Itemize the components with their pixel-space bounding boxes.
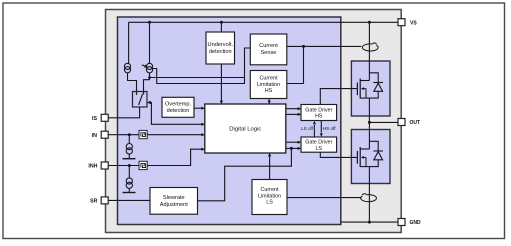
MOSFET HS	[357, 79, 369, 99]
wire current limitation LS to digital logic	[269, 154, 271, 180]
svg-text:HS: HS	[315, 114, 323, 120]
svg-text:detection: detection	[209, 49, 232, 55]
svg-text:Gate Driver: Gate Driver	[305, 140, 332, 146]
node rail-rightsource	[148, 21, 151, 24]
schmitt trigger INH	[139, 161, 147, 169]
wire IN pin to schmitt	[108, 134, 139, 136]
svg-text:Current: Current	[259, 43, 278, 49]
svg-text:HS: HS	[265, 88, 273, 94]
wire right current source to switch	[144, 73, 150, 94]
wire INH pin to schmitt	[108, 165, 139, 167]
block undervoltage detection	[206, 32, 235, 64]
arrow CL-LS into DL bottom	[268, 153, 271, 157]
wire VS to HS drain	[368, 22, 370, 80]
wire HS source to LS drain through OUT	[368, 98, 370, 149]
block overtemp detection	[162, 97, 194, 117]
wire sense tap horizontal	[150, 77, 245, 79]
arrow DL into gate driver LS a	[298, 141, 302, 144]
block current limitation HS	[250, 71, 286, 99]
svg-text:Digital Logic: Digital Logic	[229, 126, 261, 132]
pin SR	[101, 197, 108, 204]
wire current sense to VS bond node	[287, 45, 362, 47]
current source IS right (adjustable)	[146, 63, 152, 73]
svg-text:HS off: HS off	[323, 126, 336, 131]
svg-text:SR: SR	[90, 199, 98, 205]
IC body (grey)	[106, 10, 402, 233]
ground bar INH	[123, 192, 136, 194]
svg-text:INH: INH	[88, 164, 97, 170]
node INH pulldown	[128, 164, 131, 167]
bond wire inductance GND	[361, 194, 377, 202]
current source IS left (two interlocked circles)	[124, 63, 130, 73]
arrow overtemp into DL	[201, 107, 205, 110]
svg-text:Gate Driver: Gate Driver	[305, 107, 332, 113]
wire overtemp to digital logic	[194, 107, 204, 109]
wire LS off arrow line	[313, 125, 315, 137]
wire IS pin to switch	[108, 107, 140, 118]
wire switch control from digital logic	[148, 103, 204, 125]
node rail-undervolt	[220, 21, 223, 24]
node sense tap	[148, 76, 151, 79]
wire gate driver LS output to LS gate	[320, 152, 357, 157]
node GND	[368, 221, 371, 224]
node rail-HS drain	[368, 21, 371, 24]
wire INH pulldown chain	[128, 166, 130, 193]
block gate driver LS	[301, 137, 337, 152]
block current sense	[250, 34, 286, 65]
svg-text:Limitation: Limitation	[257, 82, 280, 88]
pin INH	[101, 162, 108, 169]
ground bar IN	[123, 158, 136, 160]
wire OUT junction to OUT pin	[369, 121, 398, 123]
arrowheads	[147, 101, 323, 157]
block slewrate adjustment	[150, 188, 198, 215]
svg-text:OUT: OUT	[410, 120, 421, 126]
svg-text:detection: detection	[167, 108, 190, 114]
control chip (purple)	[118, 17, 341, 225]
svg-text:Undervolt.: Undervolt.	[208, 42, 234, 48]
svg-text:Current: Current	[260, 76, 278, 82]
node sense line	[302, 45, 305, 48]
wire sense drop to current limitation HS	[287, 46, 304, 83]
wire rail drop to undervoltage block	[220, 22, 222, 32]
wire VS rail	[129, 21, 399, 23]
pin IS	[101, 114, 108, 121]
wire IN schmitt to digital logic	[147, 134, 204, 136]
pin OUT	[398, 119, 405, 126]
wire IN pulldown chain	[128, 135, 130, 159]
arrow LS off up into GDHS	[313, 121, 316, 125]
arrow ctrl into switch	[147, 101, 151, 105]
wire digital logic to gate driver LS a	[286, 141, 301, 143]
node IN pulldown	[128, 133, 131, 136]
pin GND	[398, 219, 405, 226]
wire current sense left path	[153, 48, 251, 84]
svg-text:Overtemp.: Overtemp.	[165, 101, 192, 107]
wire INH schmitt to digital logic	[147, 149, 204, 165]
current source on IN	[126, 144, 132, 154]
wire left current source to switch	[128, 73, 137, 94]
svg-text:Limitation: Limitation	[258, 193, 281, 199]
arrow DL into gate driver HS a	[298, 107, 302, 110]
wire rail drop to right current source	[149, 22, 151, 63]
wire current limitation LS sense to LS source	[287, 197, 362, 199]
body diode HS	[369, 73, 383, 98]
pin VS	[398, 19, 405, 26]
bond wire inductance VS	[362, 43, 378, 51]
wire digital logic to gate driver HS a	[286, 108, 301, 110]
adjust arrow on right current source	[142, 65, 148, 68]
HS power MOSFET box (purple)	[351, 61, 390, 116]
svg-text:IS: IS	[92, 116, 97, 122]
svg-text:IN: IN	[92, 133, 97, 139]
node slewrate join	[290, 147, 293, 150]
svg-text:Sense: Sense	[261, 50, 277, 56]
wire gate driver HS output to HS gate	[320, 89, 357, 105]
arrow switch-ctrl into DL	[201, 123, 205, 126]
block current limitation LS	[252, 180, 287, 215]
svg-text:VS: VS	[410, 20, 417, 26]
schmitt trigger IN	[139, 130, 147, 138]
wire undervoltage to digital logic	[220, 64, 222, 103]
switch S1	[133, 92, 148, 108]
svg-text:Slewrate: Slewrate	[163, 195, 185, 201]
current source on INH	[126, 178, 132, 189]
arrow CL-HS into DL	[268, 101, 271, 105]
svg-text:GND: GND	[410, 220, 422, 226]
svg-text:LS: LS	[316, 146, 323, 152]
arrow INH into DL	[201, 148, 205, 151]
svg-text:Adjustment: Adjustment	[160, 202, 188, 208]
block digital logic	[205, 104, 286, 153]
pin IN	[101, 131, 108, 138]
svg-text:LS off: LS off	[301, 126, 314, 131]
node OUT	[368, 121, 371, 124]
block gate driver HS	[301, 105, 337, 121]
wire chip ground to GND pin	[341, 221, 399, 223]
svg-text:Current: Current	[261, 187, 279, 193]
wire LS source to GND	[368, 167, 370, 223]
wire rail drop to left current source	[128, 22, 130, 63]
svg-text:LS: LS	[266, 200, 273, 206]
body diode LS	[369, 141, 383, 166]
wire digital logic to gate driver HS b	[286, 113, 301, 115]
arrow HS off down into GDLS	[320, 133, 323, 137]
wire current limitation HS to digital logic	[268, 99, 270, 104]
arrow DL into gate driver HS b	[298, 113, 302, 116]
MOSFET LS	[357, 147, 369, 167]
wire SR pin to slewrate block	[108, 199, 150, 201]
LS power MOSFET box (purple)	[351, 130, 390, 184]
wire HS off arrow line	[320, 121, 322, 133]
wire digital logic to gate driver LS b	[286, 147, 301, 149]
arrow DL into gate driver LS b	[298, 147, 302, 150]
arrow IN into DL	[201, 133, 205, 136]
arrow undervolt into DL	[220, 101, 223, 105]
wire slewrate output to gate driver LS input	[198, 148, 292, 200]
